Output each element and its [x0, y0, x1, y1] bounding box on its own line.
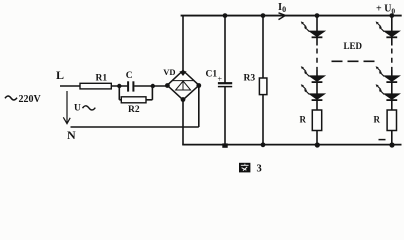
resistor R string2	[387, 110, 396, 131]
svg-text:I0: I0	[278, 2, 286, 14]
wire bridge top stem	[182, 16, 184, 71]
resistor R3	[259, 78, 267, 95]
label minus	[379, 139, 386, 141]
resistor R string1	[312, 110, 321, 131]
node junction dot (R2 right tap)	[151, 84, 155, 88]
svg-text:R2: R2	[128, 105, 140, 115]
wire string1 top segment	[316, 16, 318, 32]
wire string2 top segment	[391, 16, 393, 32]
wire string2 below D4	[391, 37, 393, 45]
wire string1 R to rail	[316, 131, 318, 145]
wire string2 above D5	[391, 70, 393, 76]
LED D5 string2	[376, 66, 400, 82]
wire R2 branch right drop	[151, 86, 153, 100]
svg-text:U: U	[74, 104, 81, 114]
wire string1 to R	[316, 100, 318, 110]
svg-text:R: R	[300, 115, 307, 125]
node dot top rail / string1	[315, 13, 320, 18]
node junction dot (R2 left tap)	[117, 84, 121, 88]
svg-text:R1: R1	[96, 74, 108, 84]
resistor R1	[80, 83, 111, 89]
node dot top rail / R3	[261, 13, 266, 18]
wire string1 between D2 and D3	[316, 82, 318, 94]
LED D4 string2	[376, 21, 400, 37]
wire R2 branch horizontal	[119, 99, 152, 101]
svg-text:R3: R3	[244, 74, 256, 84]
node dot bottom rail / C1	[222, 143, 227, 147]
wire L line (left segment to capacitor C)	[60, 85, 127, 87]
wire string1 below D1	[316, 37, 318, 45]
capacitor C1 branch upper wire	[224, 16, 226, 83]
wire bridge right stem to N	[198, 86, 200, 128]
wire string2 between D5 and D6	[391, 82, 393, 94]
node bridge right vertex dot	[196, 83, 201, 88]
svg-text:3: 3	[257, 164, 262, 175]
svg-text:VD: VD	[163, 67, 175, 77]
node dot bottom rail / string2	[389, 142, 394, 147]
wire bridge bottom stem	[182, 100, 184, 145]
node bridge top vertex dot	[179, 71, 186, 76]
capacitor C1 bottom plate	[218, 86, 232, 88]
node dot top rail / string2	[389, 13, 394, 18]
svg-text:LED: LED	[344, 41, 363, 51]
bridge inner diode triangle	[176, 81, 191, 90]
node dot top rail / C1	[223, 13, 228, 18]
LED D6 string2	[376, 84, 400, 100]
wire bottom negative rail	[182, 144, 401, 146]
node bridge left vertex dot	[165, 83, 170, 88]
bridge inner diode bar	[173, 80, 194, 82]
wire L line (capacitor C to bridge)	[134, 85, 167, 87]
wire dashed LED continuation between strings	[332, 60, 377, 62]
capacitor C1 top plate	[218, 82, 232, 84]
caption figure glyph (tu)	[239, 163, 250, 173]
wire string1 above D2	[316, 70, 318, 76]
LED D2 string1	[301, 66, 325, 82]
bridge inner diode stem	[182, 81, 184, 90]
svg-text:N: N	[67, 128, 76, 142]
label ~220V tilde	[5, 96, 17, 100]
arrow U direction (down)	[66, 91, 68, 123]
svg-text:L: L	[56, 68, 64, 82]
LED D1 string1	[301, 21, 325, 37]
svg-text:C: C	[126, 71, 133, 81]
wire string2 to R	[391, 100, 393, 110]
wire R2 branch left drop	[118, 86, 120, 100]
svg-text:R: R	[374, 115, 381, 125]
capacitor C1 branch lower wire	[224, 87, 226, 145]
node dot bottom rail / R3	[261, 142, 266, 147]
wire top positive rail	[181, 15, 402, 17]
resistor R3 branch lower wire	[262, 95, 264, 145]
resistor R3 branch upper wire	[262, 16, 264, 78]
bridge rectifier VD diamond	[167, 71, 199, 100]
capacitor C plates	[127, 81, 129, 91]
node dot bottom rail / string1	[315, 142, 320, 147]
wire string1 dashed continuation	[316, 49, 318, 71]
LED D3 string1	[301, 84, 325, 100]
node bridge bottom vertex dot	[181, 97, 186, 102]
wire string2 dashed continuation	[391, 49, 393, 71]
label U tilde	[83, 106, 96, 110]
svg-text:C1: C1	[206, 70, 218, 80]
wire string2 R to rail	[391, 131, 393, 145]
wire N line	[71, 126, 199, 128]
resistor R2	[121, 97, 146, 103]
svg-text:220V: 220V	[19, 94, 42, 105]
arrow I0 on rail	[279, 16, 286, 20]
